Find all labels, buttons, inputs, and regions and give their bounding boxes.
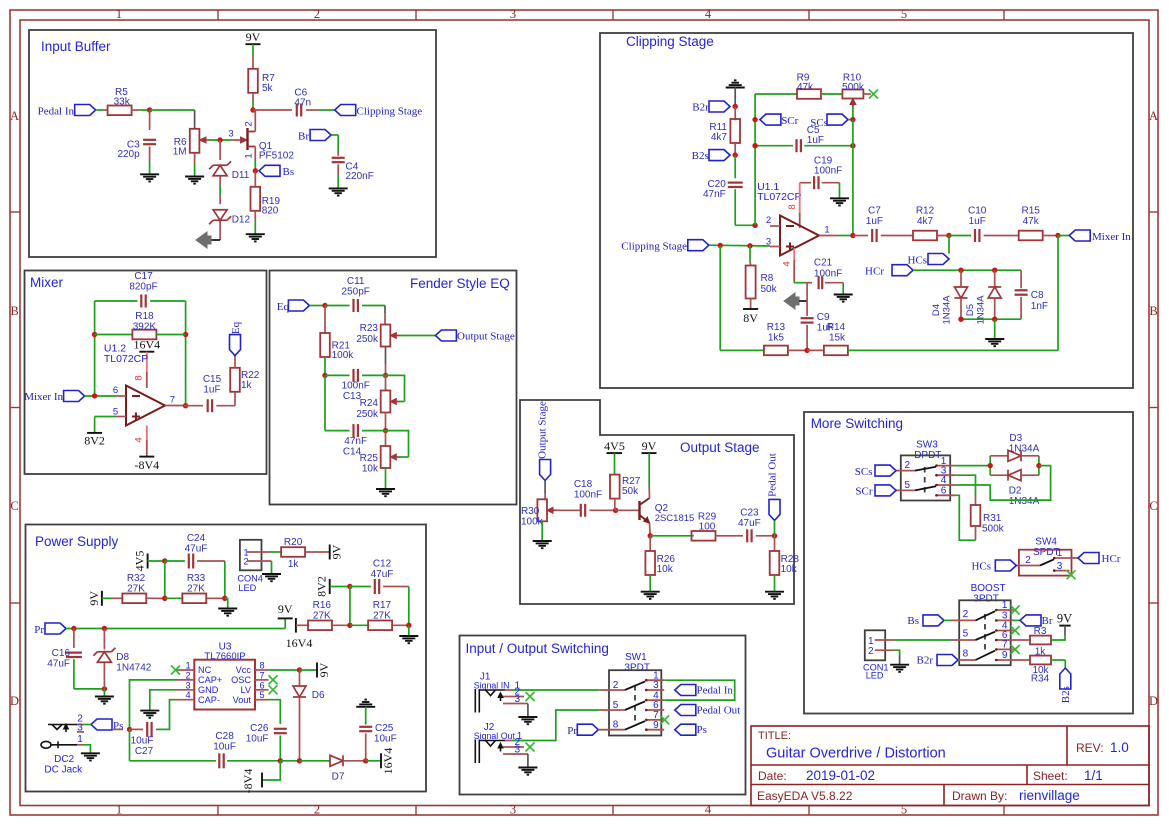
svg-text:2: 2 bbox=[905, 460, 911, 471]
svg-text:Output Stage: Output Stage bbox=[680, 440, 760, 455]
svg-text:220p: 220p bbox=[117, 149, 140, 160]
svg-text:1k: 1k bbox=[241, 380, 253, 391]
svg-text:2: 2 bbox=[1025, 555, 1031, 566]
svg-text:Mixer: Mixer bbox=[30, 275, 64, 290]
svg-text:Drawn By:: Drawn By: bbox=[952, 789, 1007, 803]
svg-text:R12: R12 bbox=[916, 206, 935, 217]
svg-text:7: 7 bbox=[170, 395, 175, 406]
svg-text:LED: LED bbox=[866, 671, 884, 681]
svg-text:250k: 250k bbox=[356, 409, 379, 420]
svg-text:CAP+: CAP+ bbox=[198, 675, 222, 685]
svg-text:LED: LED bbox=[238, 583, 256, 593]
svg-text:TL072CP: TL072CP bbox=[757, 191, 801, 203]
svg-text:1.0: 1.0 bbox=[1110, 740, 1129, 755]
svg-text:3: 3 bbox=[510, 7, 516, 21]
svg-text:16V4: 16V4 bbox=[133, 338, 160, 352]
svg-text:27K: 27K bbox=[127, 584, 145, 595]
svg-text:1: 1 bbox=[185, 661, 190, 671]
svg-text:C24: C24 bbox=[187, 533, 206, 544]
svg-text:820pF: 820pF bbox=[129, 282, 157, 293]
svg-text:A: A bbox=[1149, 109, 1158, 123]
svg-text:Mixer In: Mixer In bbox=[24, 391, 63, 403]
svg-text:6: 6 bbox=[113, 385, 118, 396]
svg-text:1N34A: 1N34A bbox=[1009, 443, 1040, 454]
svg-text:27K: 27K bbox=[187, 584, 205, 595]
svg-text:10k: 10k bbox=[781, 564, 798, 575]
svg-text:9V: 9V bbox=[642, 439, 657, 453]
svg-text:BOOST: BOOST bbox=[971, 583, 1006, 594]
svg-text:2: 2 bbox=[613, 680, 619, 691]
svg-text:C27: C27 bbox=[135, 746, 154, 757]
svg-text:R3: R3 bbox=[1034, 626, 1047, 637]
svg-text:HCs: HCs bbox=[907, 255, 927, 267]
svg-text:C18: C18 bbox=[574, 479, 593, 490]
svg-text:SW3: SW3 bbox=[916, 440, 938, 451]
svg-text:Pedal In: Pedal In bbox=[697, 685, 734, 697]
svg-text:2: 2 bbox=[314, 7, 320, 21]
svg-text:HCs: HCs bbox=[971, 561, 991, 573]
svg-text:R34: R34 bbox=[1031, 674, 1050, 685]
svg-text:3: 3 bbox=[185, 680, 190, 690]
svg-text:Sheet:: Sheet: bbox=[1033, 769, 1068, 783]
svg-text:GND: GND bbox=[198, 685, 219, 695]
svg-text:8V: 8V bbox=[743, 311, 758, 325]
svg-text:C8: C8 bbox=[1031, 290, 1044, 301]
svg-text:Output Stage: Output Stage bbox=[457, 331, 515, 343]
svg-text:C11: C11 bbox=[347, 276, 365, 287]
svg-text:NC: NC bbox=[198, 665, 212, 675]
svg-text:9: 9 bbox=[1002, 650, 1008, 661]
svg-text:D4: D4 bbox=[931, 304, 942, 316]
svg-text:8: 8 bbox=[613, 720, 619, 731]
svg-text:9V: 9V bbox=[1057, 611, 1072, 625]
svg-text:1uF: 1uF bbox=[203, 385, 220, 396]
svg-text:1k5: 1k5 bbox=[768, 333, 785, 344]
svg-text:5: 5 bbox=[259, 690, 264, 700]
svg-text:-8V4: -8V4 bbox=[241, 769, 255, 794]
svg-text:820: 820 bbox=[262, 206, 279, 217]
svg-text:R24: R24 bbox=[360, 398, 379, 409]
svg-text:PF5102: PF5102 bbox=[259, 151, 294, 162]
svg-text:4: 4 bbox=[705, 803, 712, 817]
svg-text:1: 1 bbox=[116, 7, 122, 21]
svg-text:OSC: OSC bbox=[231, 675, 251, 685]
svg-text:Output Stage: Output Stage bbox=[537, 401, 549, 459]
svg-text:C12: C12 bbox=[373, 559, 392, 570]
svg-text:Pedal Out: Pedal Out bbox=[767, 453, 779, 497]
svg-text:10k: 10k bbox=[657, 564, 674, 575]
svg-text:1uF: 1uF bbox=[969, 216, 986, 227]
svg-text:5: 5 bbox=[905, 480, 911, 491]
svg-text:4k7: 4k7 bbox=[711, 132, 728, 143]
svg-text:D5: D5 bbox=[965, 304, 976, 316]
svg-text:C16: C16 bbox=[52, 648, 71, 659]
svg-text:47k: 47k bbox=[797, 82, 814, 93]
svg-text:100k: 100k bbox=[521, 517, 544, 528]
svg-text:D8: D8 bbox=[116, 652, 129, 663]
svg-text:1uF: 1uF bbox=[807, 135, 824, 146]
svg-text:47uF: 47uF bbox=[47, 659, 70, 670]
svg-text:C7: C7 bbox=[868, 206, 881, 217]
svg-text:2: 2 bbox=[963, 609, 969, 620]
svg-text:EasyEDA V5.8.22: EasyEDA V5.8.22 bbox=[757, 789, 853, 803]
svg-text:33k: 33k bbox=[114, 97, 131, 108]
svg-text:CON4: CON4 bbox=[237, 574, 263, 584]
svg-text:250pF: 250pF bbox=[342, 287, 370, 298]
svg-text:100nF: 100nF bbox=[574, 490, 602, 501]
svg-text:R33: R33 bbox=[187, 573, 206, 584]
svg-text:SPDT: SPDT bbox=[1033, 547, 1060, 558]
svg-text:SCr: SCr bbox=[855, 486, 872, 498]
svg-text:CAP-: CAP- bbox=[198, 695, 220, 705]
svg-text:2SC1815: 2SC1815 bbox=[655, 513, 695, 524]
svg-text:C26: C26 bbox=[250, 723, 269, 734]
svg-text:Vout: Vout bbox=[233, 695, 252, 705]
svg-text:9V: 9V bbox=[246, 30, 261, 44]
svg-text:Date:: Date: bbox=[758, 769, 787, 783]
svg-text:5: 5 bbox=[963, 629, 969, 640]
svg-text:Clipping Stage: Clipping Stage bbox=[626, 34, 714, 49]
svg-text:B2s: B2s bbox=[692, 150, 709, 162]
svg-text:4: 4 bbox=[782, 261, 793, 266]
svg-text:A: A bbox=[10, 109, 19, 123]
svg-text:Guitar Overdrive / Distortion: Guitar Overdrive / Distortion bbox=[766, 746, 946, 762]
svg-text:1uF: 1uF bbox=[866, 216, 883, 227]
svg-text:D12: D12 bbox=[232, 215, 251, 226]
svg-text:8V2: 8V2 bbox=[315, 576, 329, 597]
svg-text:4: 4 bbox=[705, 7, 712, 21]
svg-text:4: 4 bbox=[134, 437, 145, 442]
svg-text:B2r: B2r bbox=[692, 102, 709, 114]
svg-text:R17: R17 bbox=[373, 600, 392, 611]
svg-text:Pedal In: Pedal In bbox=[38, 106, 75, 118]
svg-text:R8: R8 bbox=[761, 273, 774, 284]
svg-text:Eq: Eq bbox=[230, 321, 242, 334]
svg-text:2019-01-02: 2019-01-02 bbox=[806, 768, 875, 783]
svg-text:rienvillage: rienvillage bbox=[1019, 788, 1080, 803]
svg-text:100nF: 100nF bbox=[814, 269, 842, 280]
svg-text:R31: R31 bbox=[983, 513, 1002, 524]
svg-text:SCr: SCr bbox=[781, 115, 798, 127]
svg-text:C10: C10 bbox=[968, 206, 987, 217]
svg-text:1k: 1k bbox=[288, 559, 300, 570]
svg-text:9V: 9V bbox=[278, 602, 293, 616]
svg-text:HCr: HCr bbox=[1102, 553, 1121, 565]
svg-text:B: B bbox=[10, 304, 18, 318]
svg-text:SCs: SCs bbox=[855, 466, 873, 478]
svg-text:R32: R32 bbox=[127, 573, 146, 584]
svg-text:3: 3 bbox=[77, 723, 83, 734]
svg-text:R14: R14 bbox=[827, 322, 846, 333]
svg-text:500k: 500k bbox=[842, 82, 865, 93]
svg-text:1N4742: 1N4742 bbox=[116, 663, 151, 674]
svg-text:C21: C21 bbox=[814, 258, 833, 269]
svg-text:Input Buffer: Input Buffer bbox=[41, 39, 111, 54]
svg-text:1N34A: 1N34A bbox=[942, 295, 953, 325]
svg-text:5: 5 bbox=[901, 803, 907, 817]
svg-text:4V5: 4V5 bbox=[604, 439, 625, 453]
svg-text:392K: 392K bbox=[133, 322, 157, 333]
svg-text:Clipping Stage: Clipping Stage bbox=[357, 106, 423, 118]
svg-text:DC2: DC2 bbox=[54, 754, 74, 765]
svg-text:47uF: 47uF bbox=[738, 518, 761, 529]
svg-text:47uF: 47uF bbox=[185, 544, 208, 555]
svg-text:Clipping Stage: Clipping Stage bbox=[621, 241, 687, 253]
svg-text:50k: 50k bbox=[622, 486, 639, 497]
svg-text:10uF: 10uF bbox=[131, 736, 154, 747]
svg-text:5k: 5k bbox=[262, 83, 274, 94]
svg-text:R16: R16 bbox=[313, 600, 332, 611]
svg-text:10k: 10k bbox=[362, 464, 379, 475]
svg-text:4k7: 4k7 bbox=[917, 216, 934, 227]
svg-text:C: C bbox=[1149, 499, 1157, 513]
svg-text:47n: 47n bbox=[294, 98, 311, 109]
svg-text:1nF: 1nF bbox=[1031, 301, 1048, 312]
svg-text:6: 6 bbox=[259, 680, 264, 690]
svg-text:1: 1 bbox=[1057, 548, 1063, 559]
svg-text:47uF: 47uF bbox=[371, 569, 394, 580]
svg-text:R23: R23 bbox=[360, 323, 379, 334]
svg-text:10uF: 10uF bbox=[246, 734, 269, 745]
svg-text:100k: 100k bbox=[332, 350, 355, 361]
svg-text:C28: C28 bbox=[215, 731, 234, 742]
svg-text:D11: D11 bbox=[232, 170, 250, 181]
svg-text:B2r: B2r bbox=[917, 655, 934, 667]
svg-text:TITLE:: TITLE: bbox=[758, 730, 791, 742]
svg-text:8: 8 bbox=[787, 204, 798, 209]
svg-text:D7: D7 bbox=[332, 772, 345, 783]
svg-text:2: 2 bbox=[868, 646, 874, 657]
svg-text:Ps: Ps bbox=[697, 724, 707, 736]
svg-text:Pr: Pr bbox=[34, 624, 44, 636]
svg-text:15k: 15k bbox=[829, 333, 846, 344]
svg-text:4V5: 4V5 bbox=[133, 551, 147, 572]
svg-text:47k: 47k bbox=[1023, 216, 1040, 227]
svg-text:C25: C25 bbox=[375, 723, 394, 734]
svg-text:R30: R30 bbox=[521, 506, 540, 517]
svg-text:250k: 250k bbox=[356, 334, 379, 345]
svg-text:220nF: 220nF bbox=[346, 171, 374, 182]
svg-text:B2s: B2s bbox=[1060, 686, 1072, 703]
svg-text:3PDT: 3PDT bbox=[624, 663, 650, 674]
svg-text:7: 7 bbox=[1002, 640, 1008, 651]
svg-text:R25: R25 bbox=[360, 453, 379, 464]
svg-text:R20: R20 bbox=[284, 537, 303, 548]
svg-text:More Switching: More Switching bbox=[811, 416, 903, 431]
svg-text:Br: Br bbox=[298, 131, 309, 143]
svg-text:10uF: 10uF bbox=[213, 742, 236, 753]
svg-text:Vcc: Vcc bbox=[236, 665, 252, 675]
svg-text:47nF: 47nF bbox=[344, 436, 367, 447]
svg-text:Input / Output Switching: Input / Output Switching bbox=[466, 641, 609, 656]
svg-text:16V4: 16V4 bbox=[381, 748, 395, 775]
svg-text:D6: D6 bbox=[312, 690, 325, 701]
svg-text:LV: LV bbox=[240, 685, 251, 695]
svg-text:3: 3 bbox=[515, 694, 521, 705]
svg-text:TL7660IP: TL7660IP bbox=[204, 651, 245, 662]
svg-text:1N34A: 1N34A bbox=[976, 295, 987, 325]
svg-text:8: 8 bbox=[134, 375, 145, 380]
svg-text:8: 8 bbox=[963, 649, 969, 660]
svg-text:Mixer In: Mixer In bbox=[1092, 231, 1131, 243]
svg-text:3: 3 bbox=[1057, 561, 1063, 572]
svg-text:1/1: 1/1 bbox=[1084, 768, 1103, 783]
svg-text:47nF: 47nF bbox=[703, 189, 726, 200]
svg-text:3: 3 bbox=[228, 129, 233, 140]
svg-text:R18: R18 bbox=[135, 311, 154, 322]
svg-text:DC Jack: DC Jack bbox=[44, 765, 83, 776]
svg-text:Pr: Pr bbox=[567, 725, 577, 737]
svg-text:C23: C23 bbox=[740, 508, 759, 519]
svg-text:3PDT: 3PDT bbox=[973, 594, 999, 605]
svg-text:500k: 500k bbox=[982, 524, 1005, 535]
svg-text:8: 8 bbox=[259, 661, 264, 671]
svg-text:SW4: SW4 bbox=[1035, 537, 1057, 548]
svg-text:Pedal Out: Pedal Out bbox=[697, 704, 741, 716]
svg-text:100nF: 100nF bbox=[814, 166, 842, 177]
svg-text:10uF: 10uF bbox=[374, 734, 397, 745]
svg-text:Eq: Eq bbox=[277, 301, 290, 313]
svg-text:1: 1 bbox=[1002, 600, 1008, 611]
svg-text:9: 9 bbox=[653, 720, 659, 731]
svg-text:9V: 9V bbox=[330, 544, 344, 559]
svg-text:8V2: 8V2 bbox=[84, 434, 105, 448]
svg-text:C15: C15 bbox=[203, 374, 222, 385]
svg-text:REV:: REV: bbox=[1076, 741, 1104, 755]
svg-text:7: 7 bbox=[259, 670, 264, 680]
svg-text:-8V4: -8V4 bbox=[134, 458, 159, 472]
svg-text:D: D bbox=[10, 694, 19, 708]
svg-text:TL072CP: TL072CP bbox=[104, 353, 148, 365]
svg-text:27K: 27K bbox=[373, 611, 391, 622]
svg-text:1: 1 bbox=[116, 803, 122, 817]
svg-text:27K: 27K bbox=[313, 611, 331, 622]
svg-text:Bs: Bs bbox=[283, 166, 295, 178]
svg-text:2: 2 bbox=[185, 670, 190, 680]
svg-text:R15: R15 bbox=[1022, 206, 1041, 217]
svg-text:9V: 9V bbox=[317, 662, 331, 677]
svg-text:1: 1 bbox=[244, 153, 255, 158]
svg-text:1M: 1M bbox=[173, 147, 187, 158]
svg-text:2: 2 bbox=[314, 803, 320, 817]
svg-text:1N34A: 1N34A bbox=[1009, 496, 1040, 507]
svg-text:1: 1 bbox=[824, 225, 829, 236]
svg-text:Bs: Bs bbox=[907, 615, 919, 627]
svg-text:100: 100 bbox=[699, 522, 716, 533]
svg-text:50k: 50k bbox=[761, 284, 778, 295]
svg-text:D: D bbox=[1149, 694, 1158, 708]
svg-text:1: 1 bbox=[77, 734, 83, 745]
svg-text:3: 3 bbox=[515, 744, 521, 755]
svg-text:SW1: SW1 bbox=[625, 652, 647, 663]
svg-text:C: C bbox=[10, 499, 18, 513]
svg-text:Power Supply: Power Supply bbox=[35, 534, 119, 549]
svg-text:C17: C17 bbox=[134, 271, 153, 282]
svg-text:R13: R13 bbox=[767, 322, 786, 333]
svg-text:4: 4 bbox=[185, 690, 190, 700]
svg-text:9V: 9V bbox=[87, 591, 101, 606]
svg-text:2: 2 bbox=[244, 121, 255, 126]
svg-text:5: 5 bbox=[613, 700, 619, 711]
svg-text:Fender Style EQ: Fender Style EQ bbox=[410, 276, 510, 291]
svg-text:B: B bbox=[1149, 304, 1157, 318]
svg-text:100nF: 100nF bbox=[342, 381, 370, 392]
svg-text:3: 3 bbox=[510, 803, 516, 817]
svg-text:6: 6 bbox=[941, 486, 947, 497]
svg-text:16V4: 16V4 bbox=[286, 636, 313, 650]
svg-text:5: 5 bbox=[901, 7, 907, 21]
svg-text:2: 2 bbox=[766, 215, 771, 226]
svg-text:HCr: HCr bbox=[865, 266, 884, 278]
